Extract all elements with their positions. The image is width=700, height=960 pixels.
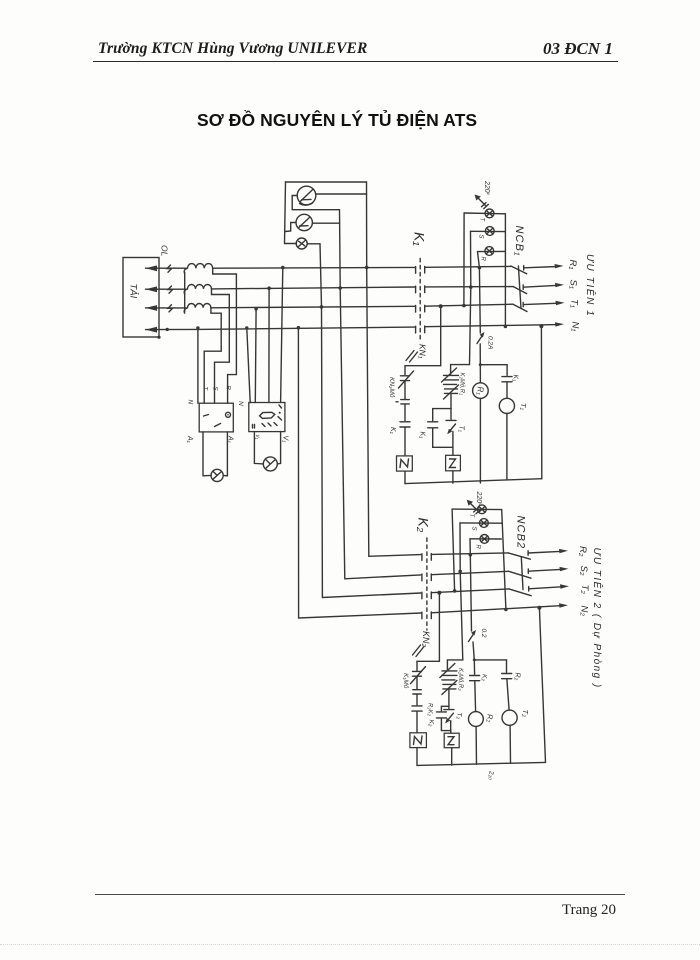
feed vertical phase R to K2 — [367, 182, 421, 556]
wire phase T output arrow T2 — [529, 584, 569, 591]
svg-text:TẢI: TẢI — [128, 284, 140, 299]
bypass loop branch 2b — [441, 706, 450, 730]
load box TAI — [123, 258, 159, 338]
NCB2 blade phase T — [509, 589, 531, 596]
branch 1b wire to bus — [416, 748, 418, 766]
CT coil on phase R — [184, 264, 213, 274]
control 1 top wire left — [405, 365, 441, 367]
arrow into load, phase R — [146, 265, 187, 271]
wire V meter left stub — [292, 196, 339, 210]
label T1 contact — [458, 426, 465, 433]
K1 pole phase T — [416, 305, 425, 312]
svg-text:NCB₁: NCB₁ — [513, 226, 525, 257]
svg-text:K₂: K₂ — [481, 674, 488, 681]
svg-text:T: T — [479, 218, 485, 223]
wire phase S bus to K1 — [212, 287, 416, 289]
wires ammeter switch to ammeter — [203, 432, 227, 476]
branch 4b wire to bus — [509, 725, 511, 762]
wire V meter right stub — [316, 193, 367, 195]
svg-text:S: S — [212, 387, 218, 391]
svg-text:K₁: K₁ — [412, 232, 428, 246]
svg-text:R: R — [475, 545, 481, 550]
branch 2b wire to coil — [450, 731, 452, 734]
wire phase R K2 to NCB2 — [431, 553, 508, 555]
wire phase T bus to K1 — [211, 306, 416, 308]
wire phase T output arrow T1 — [523, 301, 564, 307]
contact KN2 slashes — [413, 645, 425, 657]
arrow into load, phase S — [146, 286, 187, 292]
label KN2 Mo — [388, 377, 396, 398]
branch 3b wire — [474, 681, 477, 711]
svg-text:ƯU TIÊN 1: ƯU TIÊN 1 — [584, 254, 597, 317]
svg-text:ƯU TIÊN 2 ( Dự Phòng ): ƯU TIÊN 2 ( Dự Phòng ) — [591, 548, 604, 689]
wires voltmeter switch to voltmeter — [254, 432, 280, 464]
branch 3b feed from phase R — [470, 555, 474, 660]
label V1 left — [254, 435, 260, 440]
CT coil on phase S — [184, 285, 211, 295]
label K1 bypass — [419, 432, 426, 440]
CT secondary wire from phase R coil — [213, 268, 237, 403]
wire phase R output arrow R1 — [524, 264, 564, 270]
label T2 contact — [456, 713, 463, 720]
ammeter selector switch A1 — [199, 403, 233, 432]
branch 2b wire to bus — [451, 748, 453, 766]
branch 1b wire — [416, 695, 418, 705]
branch 1 wire to bus — [404, 471, 406, 484]
branch 4 wire to bus — [506, 414, 508, 480]
timer coil T1 — [499, 398, 514, 413]
label K2 branch 3b — [481, 674, 488, 681]
branch 2b wire — [448, 690, 450, 707]
label K2Mo R1 — [459, 373, 466, 396]
feed vertical neutral to K2 — [298, 328, 421, 618]
wire meter panel left rail — [285, 182, 286, 244]
coil box 2 section 1 — [446, 455, 461, 471]
coil box N section 2 — [410, 733, 427, 748]
label T2 coil — [521, 710, 530, 718]
coil box 2 section 2 — [444, 733, 459, 748]
control 2 neutral return — [539, 608, 545, 763]
contact R2-NO branch 4b — [502, 674, 512, 679]
label 0.2 section 2 — [480, 629, 487, 638]
contact KN1-NC branch 1b — [411, 667, 426, 684]
svg-text:K₂: K₂ — [416, 518, 432, 533]
branch 2 wire to bus — [452, 471, 454, 483]
annotation arrow 220V section2 — [467, 500, 481, 514]
svg-text:KN₂Mỏ: KN₂Mỏ — [388, 377, 396, 398]
branch 3 wire to bus — [479, 398, 481, 483]
pilot lamp R1 — [478, 247, 505, 256]
lamp labels T S R section2 — [468, 514, 481, 550]
source 2 name label — [591, 548, 604, 689]
contact KN1 label — [418, 344, 428, 359]
K2 pole neutral — [422, 612, 431, 619]
svg-text:T₁: T₁ — [458, 426, 465, 433]
branch 2b feed from phase S — [447, 571, 462, 669]
voltmeter selector wire S — [268, 288, 270, 402]
svg-text:0.2: 0.2 — [480, 629, 487, 638]
bypass loop branch 2 — [433, 409, 453, 448]
svg-text:R: R — [225, 386, 231, 391]
wire phase R bus to K1 — [213, 266, 416, 269]
control 2 feed from phase T — [438, 593, 440, 662]
svg-text:R₂: R₂ — [514, 673, 521, 681]
label 220V section2 — [475, 491, 483, 507]
svg-text:T₂: T₂ — [521, 710, 530, 718]
wire phase T K1 to NCB1 — [425, 304, 513, 306]
wire phase S output arrow S1 — [523, 283, 564, 290]
svg-text:R₂: R₂ — [486, 714, 495, 722]
wire meter panel top — [286, 181, 367, 183]
wire phase R K1 to NCB1 — [425, 265, 511, 268]
contactor K2 dashed tie — [426, 538, 428, 630]
timer coil T2 — [502, 710, 517, 725]
svg-text:N₂: N₂ — [579, 606, 590, 617]
label R2 coil — [486, 714, 495, 722]
svg-text:K₁: K₁ — [419, 432, 426, 440]
CT coil on phase T — [184, 304, 211, 314]
branch 1 wire — [404, 404, 406, 420]
K1 pole neutral — [416, 326, 425, 333]
svg-text:R₁: R₁ — [476, 387, 485, 396]
svg-text:T₂: T₂ — [456, 713, 463, 720]
junction dots — [157, 266, 543, 662]
source 2 phase labels R2 S2 T2 N2 — [577, 546, 590, 616]
CT secondary wire from phase T coil — [204, 308, 221, 403]
arrow into load, neutral — [146, 327, 198, 333]
svg-text:220v: 220v — [483, 180, 491, 196]
control 2 top wire right — [474, 659, 506, 661]
label K1Mo R2 — [457, 668, 464, 691]
label A1 — [186, 435, 193, 444]
branch 4b wire — [507, 679, 509, 710]
contact KN2 label — [421, 631, 431, 648]
label 0.2A section 1 — [487, 336, 494, 349]
svg-text:S₂: S₂ — [578, 566, 589, 576]
svg-text:A₁: A₁ — [186, 435, 193, 444]
svg-text:R₂: R₂ — [577, 546, 588, 557]
label B1 — [227, 435, 234, 444]
svg-text:0.2A: 0.2A — [487, 336, 494, 349]
OL tick on phase T — [168, 305, 173, 312]
label R2K2 branch 1b — [427, 703, 433, 717]
lamp rail 2 to neutral — [502, 510, 506, 610]
wire phase T K2 to NCB2 — [431, 589, 509, 593]
OL tick on phase S — [168, 286, 173, 293]
lamp rail to phase S — [470, 231, 472, 287]
label T1 coil — [519, 403, 528, 411]
annotation arrow 220V section1 — [475, 195, 489, 209]
voltmeter selector wire R — [281, 268, 283, 403]
control 1 top wire right — [480, 364, 507, 366]
contact stack K2 R1 branch 2 — [442, 368, 459, 399]
relay coil R2 — [469, 712, 484, 727]
panel selector S — [296, 214, 312, 230]
lamp rail 2 to phase S — [459, 523, 461, 572]
svg-text:T₁: T₁ — [519, 403, 528, 411]
wire Hz left stub — [285, 243, 297, 245]
label K1 branch 4 — [512, 375, 519, 383]
coil box N section 1 — [397, 456, 413, 471]
svg-text:N₁: N₁ — [570, 322, 581, 332]
contact KN1 slashes — [406, 351, 418, 363]
lamp circuit 2 top wire — [452, 508, 502, 511]
contact KN2-NC in branch 1 — [399, 371, 414, 388]
relay coil R1 — [473, 383, 489, 399]
branch 3b wire — [473, 660, 475, 674]
control 1 bottom bus — [405, 479, 542, 484]
wire chaining CT tails — [184, 273, 186, 313]
svg-text:NCB2: NCB2 — [515, 516, 527, 550]
NCB1 blade phase T — [513, 304, 527, 311]
branch 1 wire lower — [404, 428, 406, 456]
panel voltmeter V — [297, 186, 316, 205]
branch 1b wire upper — [416, 661, 418, 670]
svg-text:T: T — [468, 514, 474, 519]
NCB2 tie bar — [521, 557, 523, 590]
label K1 branch 1 — [389, 427, 396, 435]
contact K1-NO branch 4 — [502, 377, 512, 382]
svg-text:OL: OL — [160, 245, 170, 257]
fuse 0.2A section 1 — [477, 332, 485, 344]
pilot lamp T2 — [478, 505, 487, 514]
svg-text:K₂: K₂ — [428, 720, 435, 727]
svg-text:R₂K₂: R₂K₂ — [427, 703, 433, 717]
control 1 neutral return — [540, 326, 542, 479]
breaker NCB2 label — [515, 516, 527, 550]
lamp rail to phase T — [463, 213, 465, 306]
voltmeter selector wire T — [254, 309, 257, 403]
svg-text:S₁: S₁ — [568, 280, 579, 289]
source 1 phase labels R1 S1 T1 N1 — [567, 260, 581, 332]
svg-text:K₁: K₁ — [512, 375, 519, 383]
NCB1 blade phase R — [511, 266, 527, 274]
arrow into load, phase T — [146, 305, 187, 311]
wire neutral K1 to output arrow — [425, 322, 564, 327]
contactor K2 label — [416, 518, 432, 533]
svg-text:2₂₀: 2₂₀ — [488, 770, 495, 780]
ammeter A — [211, 469, 223, 481]
svg-text:T₂: T₂ — [579, 585, 590, 595]
wire phase S K1 to NCB1 — [425, 286, 514, 288]
voltmeter selector switch V1 — [249, 403, 285, 432]
wire S meter left stub — [285, 223, 296, 232]
label 220 section 2 bus — [488, 770, 495, 780]
label 220V section1 — [483, 180, 491, 196]
contactor K1 dashed tie — [419, 259, 421, 343]
lamp labels T S R section1 — [478, 218, 486, 262]
control 2 bottom bus — [417, 762, 546, 765]
branch 4b wire upper — [506, 660, 508, 672]
feed vertical phase S to K2 — [340, 210, 421, 579]
branch 1 wire upper — [404, 366, 406, 375]
label V1 right — [282, 436, 289, 444]
NCB1 tie bar — [518, 266, 521, 309]
NCB1 blade phase S — [513, 287, 526, 294]
wire S meter right stub — [312, 222, 339, 224]
thermal element branch 1b — [413, 690, 421, 694]
NCB2 blade phase S — [509, 571, 531, 578]
label R2 branch 4b — [514, 673, 521, 681]
K2 pole phase T — [422, 592, 431, 599]
label K2 bypass — [428, 720, 435, 727]
pilot lamp R2 — [470, 535, 501, 544]
K2 pole phase S — [422, 574, 431, 581]
voltmeter V — [263, 457, 277, 471]
contact K2-NO bypass 2b — [436, 712, 446, 718]
pilot lamp T1 — [485, 209, 494, 218]
panel pilot Hz — [296, 238, 307, 249]
svg-text:K₁Mỏ: K₁Mỏ — [402, 673, 410, 689]
svg-text:S: S — [471, 527, 477, 531]
K1 pole phase R — [416, 266, 425, 273]
svg-text:K₁Mỏ,R₂: K₁Mỏ,R₂ — [457, 668, 464, 691]
control 1 feed from phase T — [440, 306, 442, 365]
feed vertical phase T to K2 — [320, 244, 421, 598]
breaker NCB1 label — [513, 226, 525, 257]
svg-text:S: S — [478, 235, 484, 239]
svg-text:KN₁: KN₁ — [418, 344, 428, 359]
branch 3 feed from phase R — [479, 268, 480, 383]
pilot lamp S1 — [471, 227, 506, 236]
fuse 0.2A section 2 — [469, 630, 477, 642]
lamp rail 2 to phase R — [469, 539, 471, 555]
svg-text:N: N — [187, 400, 194, 405]
voltmeter selector wire N — [247, 328, 250, 403]
contact K1-NO bypass — [428, 422, 438, 428]
branch 4 wire upper — [506, 365, 508, 376]
wire neutral K2 to output arrow — [431, 603, 568, 613]
branch 1 wire — [404, 381, 406, 398]
K1 pole phase S — [416, 286, 425, 293]
svg-text:KN₂: KN₂ — [421, 631, 431, 648]
branch 2 wire — [450, 394, 452, 409]
lamp rail to neutral — [504, 214, 506, 327]
contact K2-NO branch 3b — [470, 676, 480, 681]
NCB2 blade phase R — [508, 553, 530, 559]
label KN1 Mo — [402, 673, 410, 689]
contact stack branch 2b — [440, 664, 457, 695]
svg-text:T₁: T₁ — [569, 299, 580, 308]
branch 2 wire to coil — [452, 447, 454, 455]
label N at voltmeter switch — [237, 401, 244, 406]
branch 4 wire — [506, 382, 508, 398]
timed contact T1 branch 2 — [446, 409, 456, 448]
svg-text:V₁: V₁ — [282, 436, 289, 444]
branch 3b wire to bus — [475, 726, 477, 764]
contactor K1 label — [412, 232, 428, 246]
contact K1-NO in branch 1 — [400, 422, 410, 427]
svg-text:N: N — [237, 401, 244, 406]
OL tick on phase R — [167, 265, 172, 272]
lamp rail to phase R — [478, 252, 480, 268]
wire phase R output arrow R2 — [528, 549, 568, 555]
svg-text:R₁: R₁ — [567, 260, 578, 270]
K2 pole phase R — [422, 554, 431, 561]
wire neutral bus to K1 — [198, 327, 416, 329]
source 1 name label — [584, 254, 597, 317]
CT secondary wire from phase S coil — [212, 289, 230, 403]
neutral wire to ammeter switch — [197, 329, 199, 403]
timed contact T2 branch 2b — [444, 706, 454, 730]
terminal labels T S R on ammeter switch — [187, 386, 231, 405]
wire Hz right stub — [307, 243, 320, 245]
svg-text:R: R — [480, 257, 486, 262]
OL label — [160, 245, 170, 257]
contact NO branch 1b — [412, 706, 422, 711]
wire phase S K2 to NCB2 — [431, 571, 508, 574]
lamp rail 2 to phase T — [452, 509, 455, 591]
branch 1b wire — [416, 677, 418, 689]
svg-text:K₂Mỏ,R₁: K₂Mỏ,R₁ — [459, 373, 466, 396]
lamp circuit 1 top wire — [464, 212, 505, 215]
branch 2 feed from phase S — [451, 287, 471, 374]
branch 1b wire lower — [416, 712, 418, 733]
thermal element branch 1 — [396, 400, 409, 404]
wire phase S output arrow S2 — [528, 567, 568, 574]
svg-text:K₁: K₁ — [389, 427, 396, 435]
control 2 top wire left — [417, 660, 439, 662]
svg-text:220v: 220v — [475, 491, 483, 507]
pilot lamp S2 — [460, 519, 502, 528]
